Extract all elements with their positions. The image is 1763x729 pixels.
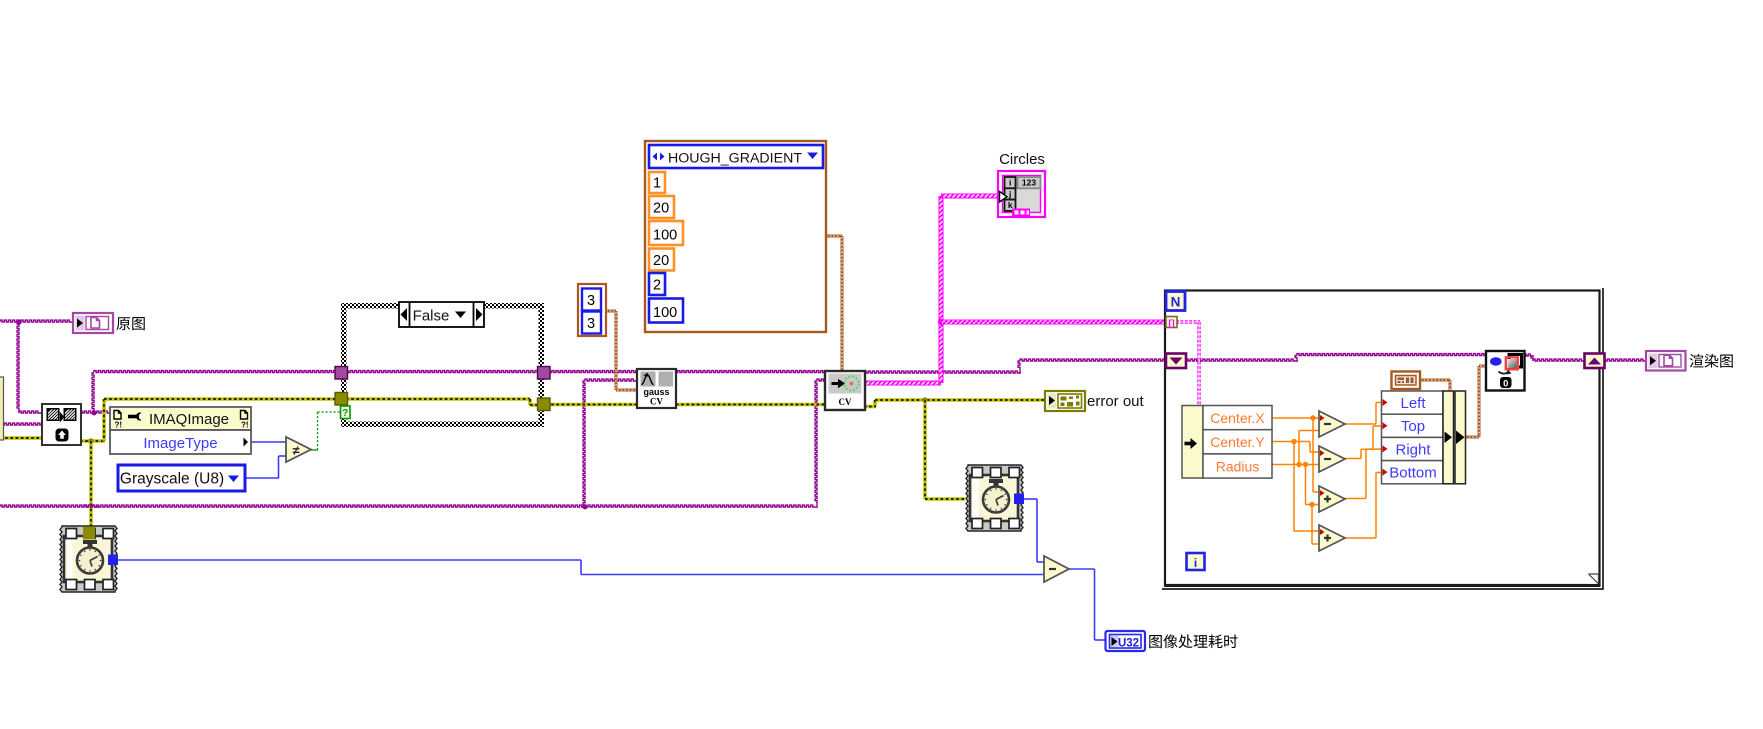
svg-text:0: 0 — [1503, 379, 1508, 390]
svg-text:20: 20 — [653, 253, 669, 269]
svg-text:Bottom: Bottom — [1389, 465, 1437, 482]
svg-text:3: 3 — [587, 316, 595, 332]
svg-text:?!: ?! — [241, 421, 249, 430]
svg-text:?!: ?! — [115, 421, 123, 430]
svg-text:i: i — [1194, 556, 1197, 570]
svg-text:IMAQImage: IMAQImage — [149, 411, 229, 428]
svg-text:N: N — [1171, 295, 1181, 310]
svg-text:20: 20 — [653, 201, 669, 217]
svg-text:Right: Right — [1395, 441, 1431, 458]
svg-text:Circles: Circles — [999, 151, 1045, 168]
svg-text:2: 2 — [653, 278, 661, 294]
svg-text:123: 123 — [1022, 178, 1036, 188]
svg-text:Radius: Radius — [1216, 458, 1260, 474]
svg-text:≠: ≠ — [293, 443, 300, 458]
svg-text:100: 100 — [653, 228, 677, 244]
svg-text:Center.X: Center.X — [1210, 410, 1265, 426]
svg-text:i: i — [1009, 178, 1011, 188]
svg-text:Center.Y: Center.Y — [1210, 434, 1265, 450]
svg-text:1: 1 — [653, 176, 661, 192]
svg-text:U32: U32 — [1118, 638, 1139, 650]
svg-text:[]: [] — [1168, 318, 1174, 329]
svg-text:?: ? — [342, 408, 348, 419]
svg-text:ImageType: ImageType — [143, 435, 217, 452]
svg-text:3: 3 — [587, 293, 595, 309]
svg-text:Left: Left — [1400, 395, 1426, 412]
svg-text:j: j — [1008, 189, 1011, 199]
svg-text:CV: CV — [650, 397, 663, 407]
svg-text:100: 100 — [653, 305, 677, 321]
svg-text:error out: error out — [1087, 393, 1145, 410]
svg-text:False: False — [413, 308, 450, 325]
svg-text:gauss: gauss — [643, 387, 669, 397]
svg-text:HOUGH_GRADIENT: HOUGH_GRADIENT — [668, 151, 802, 167]
svg-text:Grayscale (U8): Grayscale (U8) — [120, 471, 224, 488]
svg-text:Top: Top — [1401, 418, 1425, 435]
svg-text:CV: CV — [839, 397, 852, 407]
